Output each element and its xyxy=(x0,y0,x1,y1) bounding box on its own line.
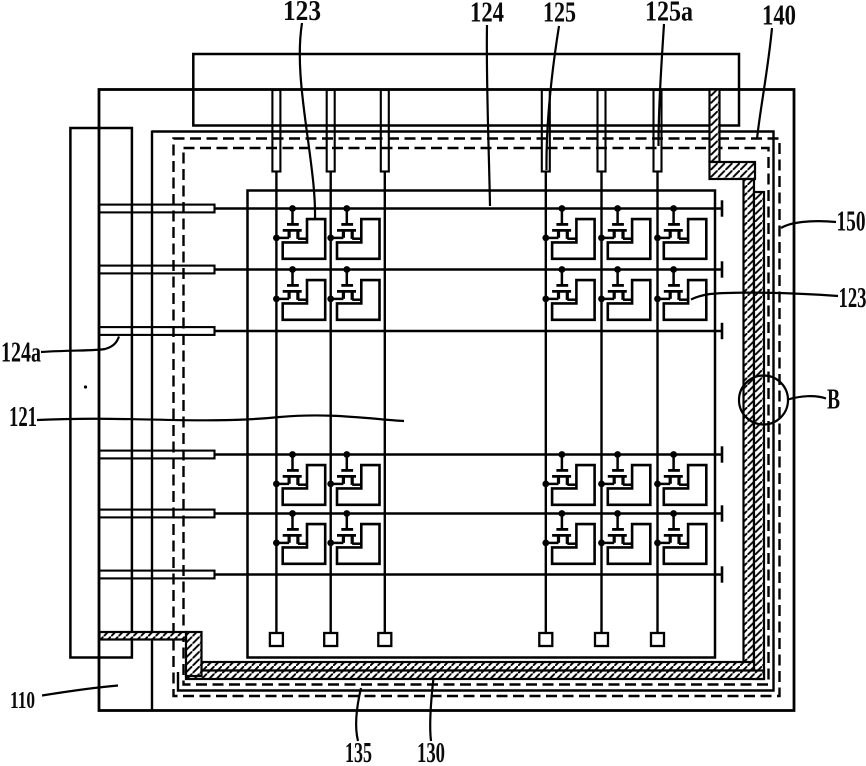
data line 6 with pad 125a and test pad xyxy=(651,90,664,646)
TFT transistor Q3 xyxy=(542,205,594,259)
svg-text:140: 140 xyxy=(762,0,796,32)
seal line 140 top-right step band xyxy=(710,162,756,179)
TFT transistor Q5 xyxy=(654,205,706,259)
TFT transistor Q6 xyxy=(273,266,325,320)
gate pad bar (left) xyxy=(70,128,131,658)
svg-text:121: 121 xyxy=(9,401,37,433)
data pad bar (top) xyxy=(193,54,739,126)
svg-text:125a: 125a xyxy=(645,0,693,28)
TFT transistor Q9 xyxy=(598,266,650,320)
gate line 2 with pad 124a xyxy=(99,261,722,277)
seal line left exit strip xyxy=(100,632,187,640)
data line 1 with pad 125a and test pad xyxy=(270,90,283,646)
label 135 leader xyxy=(356,688,361,741)
svg-text:124: 124 xyxy=(470,0,504,29)
TFT transistor Q11 xyxy=(273,451,325,505)
TFT transistor Q15 xyxy=(654,451,706,505)
seal line right inner strip xyxy=(744,179,755,671)
stray scan dot xyxy=(84,385,87,388)
TFT transistor Q19 xyxy=(598,510,650,564)
TFT transistor Q1 xyxy=(273,205,325,259)
svg-text:123: 123 xyxy=(283,0,321,27)
label 110 leader xyxy=(42,686,118,696)
gate line 5 with pad 124a xyxy=(99,505,722,521)
active display area outline 121 xyxy=(248,191,716,658)
label 124 leader xyxy=(487,25,490,206)
data line 2 with pad 125a and test pad xyxy=(324,90,337,646)
TFT transistor Q18 xyxy=(542,510,594,564)
label 130 leader xyxy=(430,678,433,741)
label 140 leader xyxy=(757,28,772,139)
solid frame boundary 135 xyxy=(152,131,774,712)
label 121 leader xyxy=(37,415,404,421)
svg-text:123: 123 xyxy=(839,282,866,314)
data line 3 with pad 125a and test pad xyxy=(378,90,391,646)
data line 5 with pad 125a and test pad xyxy=(595,90,608,646)
label 125 leader xyxy=(546,26,559,170)
gate line 4 with pad 124a xyxy=(99,446,722,462)
svg-text:125: 125 xyxy=(543,0,576,29)
gate line 3 with pad 124a xyxy=(99,323,722,339)
svg-text:135: 135 xyxy=(345,737,372,766)
data line 4 with pad 125a and test pad xyxy=(539,90,552,646)
label B leader xyxy=(788,396,826,399)
label 150 leader xyxy=(781,221,836,228)
TFT transistor Q8 xyxy=(542,266,594,320)
inner dashed frame xyxy=(184,148,769,685)
TFT transistor Q14 xyxy=(598,451,650,505)
label 123 (right) leader xyxy=(691,293,838,300)
gate line 6 with pad 124a xyxy=(99,566,722,582)
TFT transistor Q16 xyxy=(273,510,325,564)
seal line 130 bottom inner strip xyxy=(202,662,755,671)
svg-text:130: 130 xyxy=(417,737,445,766)
detail circle B xyxy=(739,376,788,425)
TFT transistor Q12 xyxy=(327,451,379,505)
seal line bottom-left step block xyxy=(186,632,202,676)
seal line 140 top entry strip xyxy=(710,90,720,163)
seal line right outer strip xyxy=(754,192,764,679)
TFT transistor Q17 xyxy=(327,510,379,564)
TFT transistor Q7 xyxy=(327,266,379,320)
label 123 (top) leader xyxy=(300,23,315,219)
outer dashed frame 150 xyxy=(174,139,780,697)
svg-text:110: 110 xyxy=(10,688,35,714)
TFT transistor Q2 xyxy=(327,205,379,259)
substrate 110 outer rectangle xyxy=(99,90,794,711)
svg-text:124a: 124a xyxy=(1,337,41,369)
TFT transistor Q13 xyxy=(542,451,594,505)
TFT transistor Q4 xyxy=(598,205,650,259)
gate line 1 with pad 124a xyxy=(99,200,722,216)
svg-text:B: B xyxy=(827,385,840,416)
svg-text:150: 150 xyxy=(837,206,866,238)
label 125a leader xyxy=(659,24,665,146)
TFT transistor Q10 xyxy=(654,266,706,320)
TFT transistor Q20 xyxy=(654,510,706,564)
label 124a leader xyxy=(41,337,119,353)
seal line 130 bottom outer strip xyxy=(186,671,764,680)
